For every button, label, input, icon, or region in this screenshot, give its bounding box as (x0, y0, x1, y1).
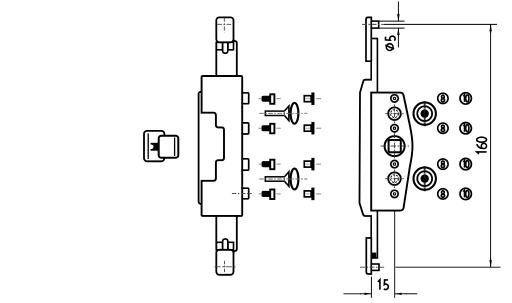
screw S2 row2-right (304, 122, 321, 134)
knob base inner edge line (147, 133, 149, 159)
phi5 extension lines (379, 20, 405, 22)
roller tab 2 (241, 123, 248, 134)
top tab center cross (217, 18, 232, 33)
screw S2 top-right (304, 93, 321, 105)
roller tab 1 (right edge) (241, 93, 248, 104)
screw S2 row4-right (304, 188, 321, 200)
callout circled 10, row2 (460, 123, 471, 134)
callout circled 10, row1 (460, 93, 471, 104)
15 label (378, 280, 388, 290)
drive bar upper segment (366, 17, 371, 61)
callout circled 8, row3 (438, 159, 448, 169)
top connector stem right stepped edge (234, 39, 237, 76)
centerline through tab 4 (232, 193, 252, 195)
gear hub upper (385, 104, 404, 123)
top connector stem left edge (215, 42, 217, 76)
drive bar lower segment (366, 238, 371, 274)
phi5 arrow above (397, 2, 399, 15)
gearbox housing body with stepped left contour (front view) (202, 76, 243, 216)
callout circled 8, row1 (438, 93, 448, 103)
roller tab 3 (241, 159, 248, 170)
screw S1 row3-left (259, 160, 281, 170)
faceplate strip (edge-on) (371, 39, 377, 259)
mounting cam upper (rear view) (414, 101, 436, 126)
knob neck (dark) (151, 143, 159, 151)
slide bar behind left edge of gearbox (199, 92, 229, 204)
knob head (159, 136, 179, 158)
15 left extension line (370, 277, 372, 298)
top end tab (rounded) (216, 17, 233, 42)
bottom inverted U-notch (223, 239, 228, 250)
15 dimension line left part with arrow (344, 293, 362, 295)
guide roller hole 4 (391, 190, 398, 197)
lower locking pin (371, 264, 379, 270)
mounting cam lower (rear view) (414, 166, 436, 191)
bottom right ear (228, 242, 234, 250)
drive square boss (381, 133, 410, 160)
callout circled 8, row2 (438, 123, 448, 133)
spindle axis extension line (394, 212, 396, 298)
lower pin centerline (360, 266, 385, 268)
bottom left ear (216, 242, 222, 250)
gearbox housing (side profile) (371, 93, 412, 211)
mushroom cam bolt top (259, 103, 307, 124)
160 dimension line with arrows (490, 24, 492, 33)
guide roller hole 1 (391, 95, 398, 102)
upper locking pin (371, 21, 378, 28)
bottom end tab (rounded) (216, 250, 233, 275)
bottom connector stem left edge (215, 216, 217, 250)
15 dimension line right part with arrow (406, 293, 417, 295)
top right ear (228, 42, 234, 50)
guide roller hole 3 (391, 160, 398, 167)
bottom connector stem right stepped edge (234, 216, 237, 253)
top left ear (216, 42, 222, 50)
callout circled 10, row3 (460, 158, 471, 169)
knob head inner edge line (174, 138, 176, 157)
faceplate strip lower end block (370, 253, 376, 259)
gear hub lower (385, 169, 404, 188)
roller tab 4 (241, 188, 248, 199)
screw S1 row2-left (259, 124, 281, 134)
screw S1 top-left (259, 94, 281, 104)
cover plate (side profile) (360, 80, 373, 216)
160 bottom extension line (396, 266, 501, 268)
upper pin centerline + 160 top extension line (362, 23, 384, 25)
guide roller hole 2 (391, 125, 398, 132)
bottom tab center cross (215, 261, 237, 273)
screw S1 row4-left (259, 190, 281, 200)
knob base plate (144, 131, 164, 161)
160 label (477, 137, 487, 154)
phi5 label (385, 36, 395, 50)
phi5 arrow below (397, 36, 399, 48)
mushroom cam bolt bottom (259, 169, 307, 190)
callout circled 10, row4 (460, 188, 471, 199)
callout circled 8, row4 (438, 189, 448, 199)
screw S2 row3-right (304, 158, 321, 170)
top U-notch (223, 42, 228, 53)
